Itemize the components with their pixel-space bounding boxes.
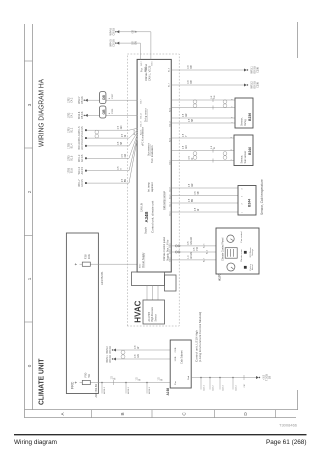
svg-text:B1.6: B1.6: [169, 67, 171, 72]
fuse box FRC: [66, 233, 98, 394]
svg-text:GN: GN: [135, 41, 137, 45]
ground branch 4: [232, 377, 234, 379]
svg-text:0.5: 0.5: [183, 145, 185, 149]
connector OB1: [100, 92, 106, 104]
svg-text:Pwr: Pwr: [141, 68, 144, 72]
svg-text:G44.1: G44.1: [203, 384, 205, 391]
svg-text:C: C: [182, 412, 187, 416]
svg-text:0: 0: [27, 364, 32, 367]
grid row tick A/B: [91, 410, 93, 418]
svg-text:0.5: 0.5: [195, 207, 197, 211]
svg-text:B1.7: B1.7: [169, 82, 171, 87]
grid row tick B/C: [151, 410, 153, 418]
wire S1: [86, 129, 129, 131]
frame: top reference band line 2: [32, 24, 34, 410]
svg-text:SB: SB: [198, 191, 200, 195]
control unit A168: [170, 340, 191, 388]
svg-text:G44.3: G44.3: [222, 384, 224, 391]
fan selector: [225, 248, 237, 259]
svg-text:1.0: 1.0: [188, 255, 190, 259]
svg-text:2: 2: [231, 149, 233, 151]
wire A168 ground bus: [191, 377, 257, 379]
svg-text:W: W: [125, 134, 127, 137]
terminals of S1..S6: [85, 129, 87, 131]
wire stub branch 2: [125, 383, 127, 394]
svg-text:Power Supply: Power Supply: [142, 252, 145, 268]
svg-text:B2.17: B2.17: [141, 120, 143, 126]
grid row tick D/end: [275, 410, 277, 418]
svg-text:Cab Subnet: Cab Subnet: [180, 350, 184, 364]
inline connector on A170-1: [175, 245, 177, 247]
svg-text:2: 2: [232, 116, 234, 118]
svg-text:D: D: [243, 412, 248, 416]
svg-text:4: 4: [242, 188, 244, 190]
svg-text:Defog sensor: Defog sensor: [145, 108, 148, 122]
svg-text:1: 1: [231, 159, 233, 161]
terminal arrow OB2: [85, 114, 88, 117]
junction on F90 wire 3: [146, 382, 148, 384]
svg-text:C4.2: C4.2: [71, 97, 74, 103]
wire F90 feed to A168 Pwr: [80, 382, 171, 384]
svg-text:Fan control: Fan control: [240, 231, 243, 242]
svg-text:+: +: [74, 381, 79, 384]
svg-text:B5.6: B5.6: [152, 60, 154, 65]
svg-text:0.5: 0.5: [195, 191, 197, 195]
svg-text:0.5: 0.5: [188, 241, 190, 245]
button parking heater: [244, 266, 247, 269]
wire A168 comm 1: [114, 358, 170, 360]
svg-text:0.5: 0.5: [122, 133, 124, 137]
sensor B240: [234, 135, 253, 166]
button ECC settings: [244, 251, 247, 254]
rotated landscape drawing group: [24, 22, 298, 418]
connector block on A34B left: [132, 272, 165, 286]
wire off-page right 1: [171, 69, 245, 71]
svg-text:AR17B2.B2: AR17B2.B2: [94, 383, 98, 397]
svg-text:AC1 HP6: AC1 HP6: [148, 311, 151, 321]
wire B236-2: [171, 107, 235, 109]
svg-text:B240: B240: [248, 147, 252, 155]
svg-text:C307: C307: [112, 93, 114, 99]
svg-text:0.5: 0.5: [122, 153, 124, 157]
svg-text:T3008466: T3008466: [279, 423, 298, 428]
svg-text:Climate Control Panel: Climate Control Panel: [222, 237, 225, 261]
svg-text:CAN LIN: CAN LIN: [141, 203, 144, 212]
wire B236-3: [171, 117, 235, 119]
svg-text:C87: C87: [244, 383, 246, 388]
fuse F90: [82, 380, 90, 384]
frame: top reference band line 1: [24, 24, 26, 418]
svg-text:W: W: [138, 346, 140, 349]
svg-text:BN: BN: [192, 198, 194, 202]
grid column tick 1/2: [24, 235, 33, 237]
svg-text:C306: C306: [256, 66, 259, 72]
wire B240-2: [171, 150, 234, 152]
svg-text:Gnd: Gnd: [145, 67, 147, 72]
svg-text:1: 1: [27, 277, 32, 280]
svg-text:GN: GN: [186, 145, 188, 149]
svg-text:10A: 10A: [87, 254, 91, 259]
svg-text:A: A: [60, 412, 65, 416]
ground branch 3: [219, 377, 221, 379]
svg-text:SB: SB: [192, 118, 194, 122]
svg-text:R: R: [162, 379, 164, 381]
svg-text:GR: GR: [186, 113, 188, 117]
wire S3: [86, 145, 129, 147]
svg-text:Defog: Defog: [244, 119, 247, 126]
fuse F38: [82, 262, 90, 266]
svg-text:OB 0.8: OB 0.8: [109, 346, 112, 354]
wire B240-1: [171, 137, 234, 139]
svg-text:0.5: 0.5: [189, 198, 191, 202]
svg-text:B244: B244: [248, 199, 252, 207]
svg-text:BN: BN: [125, 179, 127, 183]
svg-text:2 DB: 2 DB: [175, 347, 177, 352]
svg-text:4: 4: [109, 112, 111, 114]
wire A170-2: [171, 251, 216, 253]
svg-text:W: W: [198, 208, 200, 211]
svg-text:AD 0.5: AD 0.5: [81, 134, 84, 142]
junction on F90 wire 2: [125, 382, 127, 384]
svg-text:Heater: Heater: [251, 264, 254, 270]
svg-text:3: 3: [242, 195, 244, 197]
svg-text:OB: OB: [191, 65, 193, 69]
wire OB1: [86, 99, 138, 101]
svg-text:0.5: 0.5: [118, 141, 120, 145]
wire S2: [86, 137, 129, 139]
svg-text:3: 3: [232, 106, 234, 108]
wire OB2: [86, 114, 138, 116]
svg-text:0.8: 0.8: [135, 354, 137, 358]
svg-text:AD 0.5: AD 0.5: [81, 142, 84, 150]
svg-text:0.8: 0.8: [135, 345, 137, 349]
sensor AC1 high pressure: [143, 300, 165, 324]
svg-text:5A: 5A: [87, 374, 91, 378]
wire B240-3: [171, 160, 234, 162]
svg-text:SB: SB: [268, 376, 271, 380]
svg-text:Cab temp sensor: Cab temp sensor: [163, 191, 166, 210]
svg-text:OB: OB: [102, 95, 106, 101]
svg-text:OB 0.8: OB 0.8: [81, 111, 84, 119]
connector tick on F90 wire: [113, 380, 115, 385]
connector tick on ground bus: [243, 375, 245, 380]
footer rule: [14, 434, 307, 436]
svg-text:Pwr: Pwr: [174, 381, 177, 385]
wire stub branch 1: [101, 383, 103, 394]
frame: left reference band line 1: [25, 417, 297, 419]
svg-text:Sun sensor: Sun sensor: [244, 151, 247, 164]
knob right: [227, 235, 234, 242]
svg-text:Y: Y: [121, 168, 123, 170]
arrow comm 1: [113, 358, 116, 361]
connector ticks on sensor wires: [212, 106, 214, 110]
svg-text:0.5: 0.5: [118, 166, 120, 170]
svg-text:Sensor: Sensor: [154, 314, 157, 322]
svg-text:0.5: 0.5: [122, 178, 124, 182]
svg-text:uPC Komunikation: uPC Komunikation: [141, 126, 144, 146]
wires connector block to AC1 sensor: [146, 286, 148, 301]
svg-text:A1.7: A1.7: [203, 257, 206, 262]
svg-text:OB: OB: [102, 109, 106, 115]
arrow ground bus: [256, 376, 259, 379]
svg-text:0.8: 0.8: [132, 41, 134, 45]
svg-text:0.5: 0.5: [183, 133, 185, 137]
sensor B236: [235, 98, 253, 128]
svg-text:Gnd: Gnd: [188, 375, 190, 380]
svg-text:0.8: 0.8: [132, 29, 134, 33]
svg-text:W: W: [135, 30, 137, 33]
svg-text:0.5: 0.5: [189, 183, 191, 187]
wire CAN H: [118, 43, 141, 59]
terminal arrow OB1: [85, 99, 88, 102]
svg-text:A1.4: A1.4: [206, 249, 209, 254]
svg-text:A34B: A34B: [144, 212, 149, 223]
svg-text:2: 2: [27, 190, 32, 193]
svg-text:AR28.2: AR28.2: [127, 386, 130, 394]
svg-text:AR28.3: AR28.3: [148, 386, 151, 394]
svg-text:CLIMATE UNIT: CLIMATE UNIT: [37, 358, 46, 405]
svg-text:0.5: 0.5: [189, 118, 191, 122]
svg-text:1: 1: [242, 211, 244, 213]
grid column tick 0/1: [24, 321, 33, 323]
wire B244-2: [171, 195, 238, 197]
frame: bottom partial line left: [297, 390, 299, 410]
svg-text:Supply: Supply: [145, 226, 147, 234]
svg-text:CB 0.8: CB 0.8: [113, 39, 116, 47]
svg-text:B: B: [120, 412, 125, 415]
arrow CAN H: [116, 42, 119, 45]
svg-text:AD 0.5: AD 0.5: [81, 126, 84, 134]
svg-text:0.8: 0.8: [188, 80, 190, 84]
svg-text:B2.14: B2.14: [140, 112, 142, 118]
svg-text:B5.7: B5.7: [141, 60, 143, 65]
wire off-page right 2: [171, 84, 245, 86]
svg-text:AD 0.5: AD 0.5: [81, 166, 84, 174]
svg-text:CAN L, V2.25: CAN L, V2.25: [148, 65, 151, 81]
svg-text:Y-R: Y-R: [197, 247, 199, 251]
svg-text:0.5: 0.5: [189, 155, 191, 159]
svg-text:B2.13: B2.13: [169, 120, 171, 126]
svg-text:GN: GN: [121, 125, 123, 129]
svg-text:Page 61 (268): Page 61 (268): [266, 439, 307, 446]
connector box at A34B lower corner: [165, 275, 177, 291]
svg-text:Settings: Settings: [251, 249, 254, 256]
svg-text:B1.2: B1.2: [71, 127, 74, 133]
svg-text:HVAC: HVAC: [133, 300, 142, 322]
svg-text:Twil. Evaluation: Twil. Evaluation: [151, 145, 154, 163]
svg-text:4: 4: [109, 97, 111, 99]
svg-text:B2.7: B2.7: [140, 98, 142, 103]
wire F38 feed: [80, 263, 138, 265]
wire B236-4: [171, 122, 235, 124]
HVAC dashed enclosure: [127, 54, 179, 326]
svg-text:R: R: [115, 377, 117, 379]
wire A170-1: [171, 245, 216, 247]
arrow off-page 1: [244, 69, 247, 72]
svg-text:B1.4: B1.4: [71, 143, 74, 149]
svg-text:Climate zone: Climate zone: [240, 248, 243, 262]
svg-text:B236: B236: [248, 113, 252, 121]
arrow comm 2: [113, 349, 116, 352]
frame: left reference band line 2: [25, 409, 299, 411]
svg-text:Y: Y: [186, 135, 188, 137]
frame: bottom partial line right: [297, 22, 299, 58]
wire B244-1: [171, 187, 238, 189]
svg-text:SB: SB: [121, 141, 123, 145]
svg-text:A170: A170: [218, 273, 222, 281]
panel A170: [216, 228, 259, 274]
svg-text:GN: GN: [138, 354, 140, 358]
svg-text:OB 0.8: OB 0.8: [109, 355, 112, 363]
junction on F90 wire 1: [101, 382, 103, 384]
svg-text:High Pressure: High Pressure: [151, 306, 154, 321]
sensor B244: [238, 186, 256, 216]
svg-text:GN: GN: [214, 95, 216, 99]
svg-text:A1.5: A1.5: [203, 243, 206, 248]
svg-text:2: 2: [242, 203, 244, 205]
svg-text:W-GN: W-GN: [191, 252, 193, 259]
svg-text:GR: GR: [125, 154, 127, 158]
svg-text:B1.6: B1.6: [71, 168, 74, 174]
svg-text:0.8: 0.8: [211, 145, 213, 149]
svg-text:W: W: [214, 146, 216, 149]
svg-text:B1.5: B1.5: [71, 155, 74, 161]
svg-text:GN-GR: GN-GR: [191, 237, 193, 245]
wire A168 comm 2: [114, 349, 170, 351]
svg-text:AR28.1: AR28.1: [103, 386, 106, 394]
ground branch 2: [209, 377, 211, 379]
svg-text:C4.1: C4.1: [71, 112, 74, 118]
svg-text:0.5: 0.5: [194, 247, 196, 251]
svg-text:Wiring diagram: Wiring diagram: [14, 439, 57, 446]
svg-text:3: 3: [27, 103, 32, 106]
svg-text:(Living Environment Control Mo: (Living Environment Control Module): [198, 312, 202, 362]
wire S5: [86, 170, 129, 172]
svg-text:B2.18: B2.18: [134, 129, 136, 135]
svg-text:WIRING DIAGRAM HA: WIRING DIAGRAM HA: [39, 79, 46, 147]
svg-text:G44.2: G44.2: [212, 384, 214, 391]
arrow off-page 2: [244, 84, 247, 87]
svg-text:R: R: [140, 379, 142, 381]
svg-text:1.5: 1.5: [137, 377, 139, 381]
grid column tick 3/end: [24, 60, 33, 62]
svg-text:0.8: 0.8: [188, 65, 190, 69]
wire B244-3: [171, 202, 238, 204]
svg-text:AD 0.5: AD 0.5: [81, 154, 84, 162]
svg-text:OB 0.8: OB 0.8: [81, 96, 84, 104]
wire CAN L: [118, 32, 151, 60]
wire stub branch 3: [146, 383, 148, 394]
wire B236-1: [171, 99, 235, 101]
twisted pair B236 lower: [223, 104, 227, 108]
control unit A34B: [137, 59, 171, 272]
svg-text:B2.15: B2.15: [141, 129, 143, 135]
arrow CAN L: [116, 30, 119, 33]
wire B244-4: [171, 211, 238, 213]
svg-text:4: 4: [232, 98, 234, 100]
svg-text:0.5: 0.5: [118, 125, 120, 129]
svg-text:C330: C330: [112, 108, 114, 114]
svg-text:1: 1: [232, 121, 234, 123]
svg-text:+: +: [74, 263, 79, 266]
wire S4: [86, 157, 129, 159]
ground branch 1: [200, 377, 202, 379]
svg-text:1.5: 1.5: [159, 377, 161, 381]
svg-text:GR: GR: [192, 183, 194, 187]
inline connector on A170-2: [175, 251, 177, 253]
twisted pair B240 upper: [193, 156, 197, 160]
svg-text:Sensor, Cab temperature: Sensor, Cab temperature: [260, 179, 264, 215]
svg-text:0.5: 0.5: [183, 113, 185, 117]
svg-text:G44.4: G44.4: [235, 384, 237, 391]
twisted pair S1-S2: [95, 134, 99, 138]
svg-text:A168: A168: [166, 388, 170, 396]
wire S6: [86, 182, 129, 184]
svg-text:AD 0.5: AD 0.5: [81, 179, 84, 187]
grid column tick 2/3: [24, 147, 33, 149]
svg-text:3: 3: [231, 136, 233, 138]
knob left: [227, 263, 235, 271]
wire A170-3: [171, 259, 216, 261]
svg-text:C306: C306: [256, 81, 259, 87]
grid row tick C/D: [214, 410, 216, 418]
svg-text:AR17B2.B1: AR17B2.B1: [100, 271, 104, 285]
connector OB2: [100, 106, 106, 118]
svg-text:1.5: 1.5: [112, 375, 114, 379]
svg-text:0.8: 0.8: [211, 95, 213, 99]
svg-text:1 DB: 1 DB: [175, 356, 177, 361]
twisted pair comm: [121, 355, 125, 359]
svg-text:CB 0.8: CB 0.8: [113, 27, 116, 35]
svg-text:Control unit, climate unit: Control unit, climate unit: [151, 201, 155, 233]
twisted pair B240 lower: [223, 156, 227, 160]
svg-text:OB: OB: [191, 80, 193, 84]
svg-text:aspirator: aspirator: [151, 182, 154, 192]
twisted pair B236 upper: [193, 104, 197, 108]
